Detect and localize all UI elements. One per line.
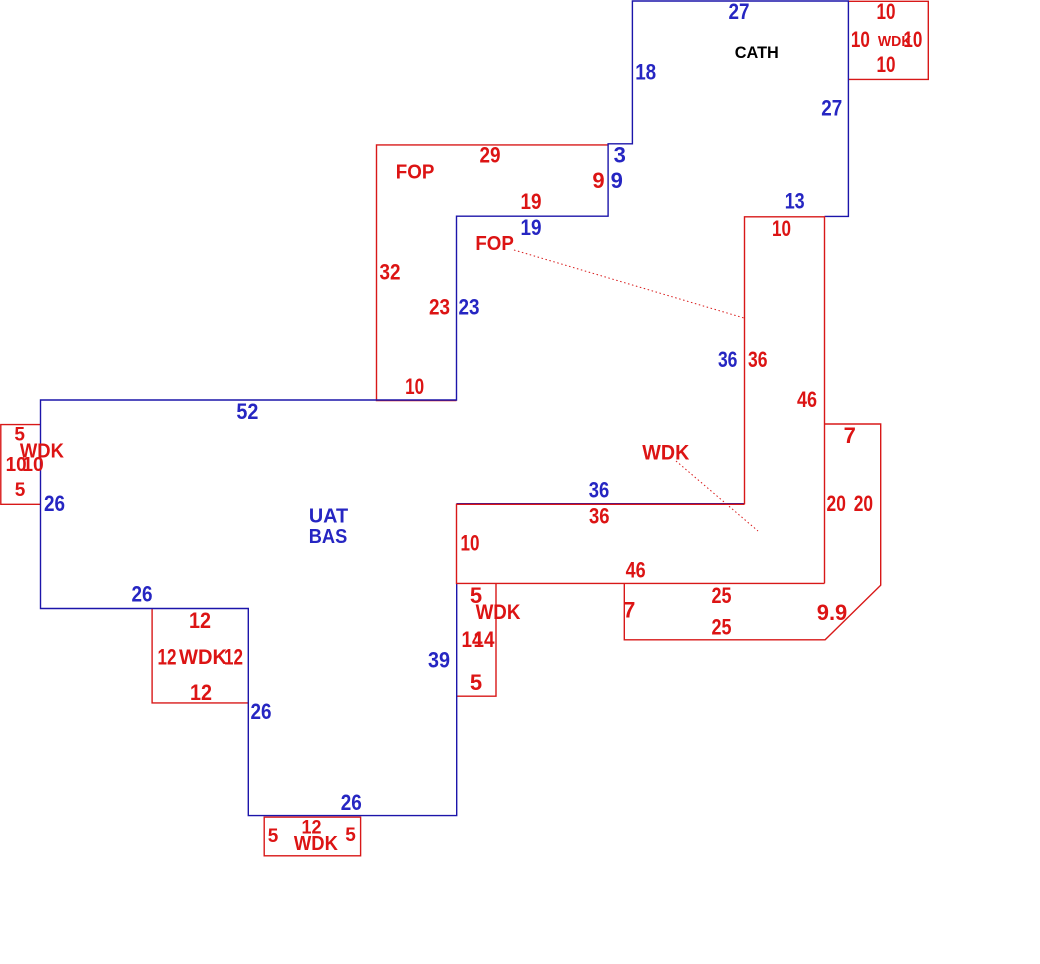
- svg-text:WDK: WDK: [294, 832, 338, 855]
- svg-text:25: 25: [712, 583, 732, 608]
- svg-text:10: 10: [405, 374, 424, 399]
- svg-text:26: 26: [341, 790, 362, 815]
- svg-text:WDK: WDK: [20, 440, 65, 462]
- svg-text:32: 32: [380, 260, 401, 285]
- svg-text:23: 23: [459, 295, 480, 320]
- svg-text:20: 20: [854, 491, 873, 516]
- svg-text:36: 36: [589, 503, 610, 528]
- svg-text:26: 26: [251, 699, 272, 724]
- svg-text:9.9: 9.9: [817, 600, 848, 625]
- svg-text:39: 39: [428, 648, 450, 673]
- svg-text:12: 12: [190, 680, 212, 705]
- svg-text:14: 14: [474, 627, 496, 652]
- svg-text:WDK: WDK: [476, 601, 521, 624]
- svg-text:5: 5: [470, 670, 482, 695]
- svg-text:9: 9: [592, 168, 604, 193]
- svg-text:23: 23: [429, 295, 450, 320]
- svg-text:26: 26: [132, 582, 153, 607]
- svg-text:20: 20: [827, 491, 846, 516]
- svg-text:5: 5: [268, 826, 279, 847]
- svg-text:7: 7: [844, 423, 856, 448]
- svg-text:13: 13: [785, 189, 805, 214]
- svg-text:10: 10: [877, 52, 896, 77]
- svg-text:7: 7: [623, 598, 635, 623]
- svg-text:25: 25: [712, 615, 732, 640]
- svg-text:9: 9: [611, 168, 623, 193]
- svg-text:CATH: CATH: [735, 44, 779, 62]
- svg-text:5: 5: [15, 480, 26, 501]
- svg-text:18: 18: [635, 59, 656, 84]
- svg-text:27: 27: [821, 95, 842, 120]
- svg-text:26: 26: [44, 491, 65, 516]
- svg-text:5: 5: [345, 825, 356, 846]
- svg-text:36: 36: [718, 347, 738, 372]
- svg-text:10: 10: [461, 531, 480, 556]
- svg-text:12: 12: [158, 645, 177, 670]
- svg-text:52: 52: [236, 399, 258, 424]
- svg-text:27: 27: [729, 0, 750, 24]
- svg-text:12: 12: [189, 608, 211, 633]
- svg-text:19: 19: [521, 189, 542, 214]
- svg-text:WDK: WDK: [878, 34, 912, 50]
- svg-text:29: 29: [480, 143, 501, 168]
- svg-text:10: 10: [772, 216, 791, 241]
- svg-text:19: 19: [521, 215, 542, 240]
- svg-text:10: 10: [877, 0, 896, 24]
- svg-text:36: 36: [589, 478, 610, 503]
- svg-text:46: 46: [797, 387, 817, 412]
- svg-text:36: 36: [748, 347, 768, 372]
- svg-text:3: 3: [614, 143, 626, 168]
- svg-text:WDK: WDK: [642, 441, 689, 465]
- svg-text:WDK: WDK: [179, 646, 227, 669]
- svg-text:BAS: BAS: [309, 525, 348, 548]
- svg-text:46: 46: [626, 557, 646, 582]
- svg-text:FOP: FOP: [475, 232, 514, 255]
- svg-text:10: 10: [851, 27, 870, 52]
- svg-text:FOP: FOP: [396, 161, 435, 184]
